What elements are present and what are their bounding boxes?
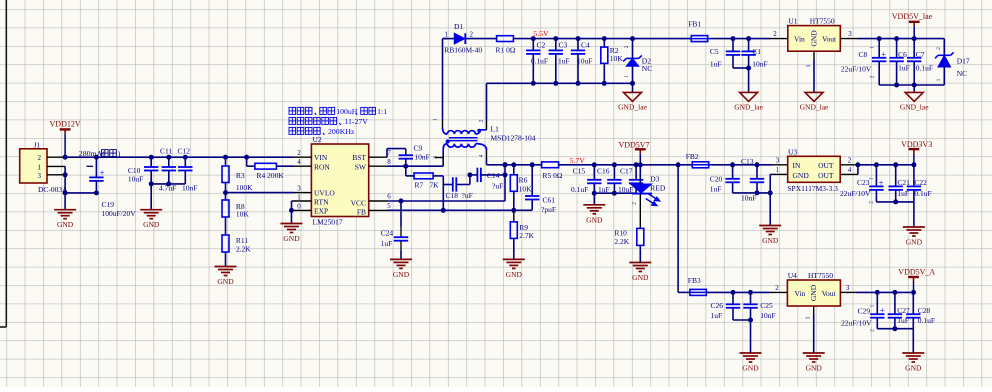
pin 1 of J1 bbox=[47, 165, 65, 167]
power port VDD5V_A bbox=[908, 276, 919, 278]
svg-text:C9: C9 bbox=[414, 144, 423, 153]
svg-text:1: 1 bbox=[624, 75, 630, 78]
power port VDD3V3 bbox=[909, 148, 920, 150]
svg-text:10K: 10K bbox=[236, 209, 250, 218]
pin 3 Vout of U4 bbox=[840, 291, 855, 293]
ground GND at U2 EXP bbox=[291, 210, 293, 223]
svg-text:Vout: Vout bbox=[822, 289, 837, 298]
svg-text:+: + bbox=[100, 168, 105, 178]
pin 1 GND of U3 bbox=[773, 173, 788, 175]
zener diode D17 NC bbox=[943, 39, 945, 56]
wire FB1 to U1 bbox=[711, 38, 771, 40]
svg-text:0.1uF: 0.1uF bbox=[531, 56, 548, 65]
wire FB net row bbox=[387, 209, 532, 211]
svg-text:C16: C16 bbox=[597, 167, 610, 176]
resistor R10 2.2K bbox=[639, 194, 641, 229]
svg-text:C24: C24 bbox=[381, 229, 394, 238]
node C14 to output bbox=[503, 172, 508, 177]
svg-text:2.2K: 2.2K bbox=[614, 237, 629, 246]
svg-text:+: + bbox=[881, 49, 886, 59]
svg-text:SW: SW bbox=[355, 162, 367, 171]
resistor R8 10K bbox=[222, 200, 229, 217]
svg-text:3: 3 bbox=[848, 30, 852, 38]
pin 3 of J1 bbox=[47, 174, 65, 176]
wire VDD3V3 rail bbox=[858, 164, 914, 166]
svg-text:1uF: 1uF bbox=[898, 64, 910, 73]
svg-text:2: 2 bbox=[870, 75, 876, 78]
svg-text:1uF: 1uF bbox=[710, 185, 722, 194]
capacitor C8 22uF/10V bbox=[877, 36, 882, 41]
svg-text:2: 2 bbox=[297, 149, 301, 157]
svg-text:3: 3 bbox=[38, 172, 42, 180]
svg-text:2: 2 bbox=[775, 284, 779, 292]
resistor R3 100K bbox=[223, 155, 228, 160]
capacitor C1 10nF bbox=[746, 36, 751, 41]
svg-text:FB3: FB3 bbox=[688, 276, 701, 285]
capacitor C13 10nF bbox=[755, 162, 760, 167]
svg-text:2: 2 bbox=[848, 157, 852, 165]
LED D3 RED bbox=[639, 165, 641, 184]
svg-text:C14: C14 bbox=[487, 171, 500, 180]
svg-text:?puF: ?puF bbox=[541, 205, 556, 214]
svg-text:3: 3 bbox=[846, 284, 850, 292]
pin 2 Vin of U1 bbox=[770, 38, 788, 40]
svg-text:1: 1 bbox=[776, 166, 780, 174]
svg-text:C61: C61 bbox=[543, 196, 556, 205]
svg-text:GND: GND bbox=[217, 277, 234, 286]
capacitor C17 10uF bbox=[634, 162, 639, 167]
resistor R6 10K feedback upper bbox=[513, 165, 515, 175]
ground GND at R10 bbox=[639, 245, 641, 262]
svg-text:1: 1 bbox=[806, 317, 812, 320]
wire VCC net row bbox=[387, 200, 505, 202]
wire FB3 to U4 bbox=[706, 291, 769, 293]
svg-text:C28: C28 bbox=[918, 306, 931, 315]
svg-text:GND: GND bbox=[283, 234, 300, 243]
svg-text:VDD5V7: VDD5V7 bbox=[618, 140, 649, 149]
pin 3 Vout of U1 bbox=[840, 38, 858, 40]
capacitor C27 1uF bbox=[892, 290, 897, 295]
svg-text:2: 2 bbox=[632, 202, 638, 205]
wire output node row bbox=[487, 164, 542, 166]
svg-text:1: 1 bbox=[38, 164, 42, 172]
svg-text:10nF: 10nF bbox=[752, 60, 767, 69]
svg-text:1uF: 1uF bbox=[558, 56, 570, 65]
svg-text:Vin: Vin bbox=[794, 35, 805, 44]
svg-text:2: 2 bbox=[624, 45, 630, 48]
svg-text:0.1uF: 0.1uF bbox=[916, 64, 933, 73]
wire GND_lae rail under cap bank bbox=[487, 82, 633, 84]
svg-text:GND: GND bbox=[906, 238, 923, 247]
svg-text:2: 2 bbox=[470, 31, 474, 39]
svg-text:GND_lae: GND_lae bbox=[800, 102, 829, 111]
wire C26-C25 bottom link bbox=[733, 319, 751, 321]
svg-text:D1: D1 bbox=[454, 22, 463, 31]
svg-text:10K: 10K bbox=[610, 54, 624, 63]
svg-text:RB160M-40: RB160M-40 bbox=[444, 45, 482, 54]
svg-text:C15: C15 bbox=[573, 167, 586, 176]
diode D1 RB160M-40 bbox=[443, 38, 449, 40]
svg-text:BST: BST bbox=[352, 153, 366, 162]
ground GND at C28 bank bbox=[912, 329, 914, 353]
wire 5.7V rail bbox=[559, 164, 679, 166]
regulator U4 HT7550 bbox=[787, 280, 840, 306]
svg-text:10uF: 10uF bbox=[577, 56, 592, 65]
wire C23-C22 bottom rail bbox=[876, 201, 914, 203]
svg-text:FB: FB bbox=[357, 208, 366, 217]
capacitor C25 10nF bbox=[748, 290, 753, 295]
svg-text:GND: GND bbox=[810, 30, 819, 47]
svg-text:C12: C12 bbox=[178, 147, 191, 156]
capacitor C5 1uF bbox=[731, 36, 736, 41]
svg-text:FB2: FB2 bbox=[686, 152, 699, 161]
pin 1 GND of U1 bbox=[813, 51, 815, 60]
svg-text:GND_lae: GND_lae bbox=[900, 102, 929, 111]
power port VDD5V7 bbox=[635, 148, 646, 150]
svg-text:1uF: 1uF bbox=[710, 60, 722, 69]
svg-text:U3: U3 bbox=[788, 147, 797, 156]
svg-text:5: 5 bbox=[387, 202, 391, 210]
svg-text:LM25017: LM25017 bbox=[313, 218, 343, 227]
svg-text:0.1uF: 0.1uF bbox=[571, 185, 588, 194]
svg-text:4: 4 bbox=[479, 154, 485, 157]
svg-text:VDD5V_lae: VDD5V_lae bbox=[892, 12, 933, 21]
capacitor C21 1uF bbox=[893, 162, 898, 167]
ground GND at U3 bbox=[759, 226, 781, 235]
regulator U1 HT7550 bbox=[788, 26, 841, 52]
svg-text:100K: 100K bbox=[236, 183, 253, 192]
svg-text:2: 2 bbox=[773, 30, 777, 38]
svg-text:4: 4 bbox=[297, 158, 301, 166]
svg-text:1: 1 bbox=[869, 304, 875, 307]
svg-text:1: 1 bbox=[806, 65, 812, 68]
wire 5.5V rail bbox=[513, 38, 690, 40]
svg-text:10uF: 10uF bbox=[128, 174, 143, 183]
svg-text:8: 8 bbox=[387, 158, 391, 166]
svg-text:Vout: Vout bbox=[822, 35, 837, 44]
svg-text:5.7V: 5.7V bbox=[570, 156, 586, 165]
svg-text:RED: RED bbox=[650, 184, 666, 193]
svg-text:C11: C11 bbox=[160, 147, 172, 156]
wire VDD12V rail bbox=[65, 156, 293, 158]
pin 2 OUT of U3 bbox=[840, 164, 858, 166]
capacitor C10 10uF bbox=[149, 155, 154, 160]
svg-text:3: 3 bbox=[297, 184, 301, 192]
pin 3 IN of U3 bbox=[773, 164, 788, 166]
svg-text:Vin: Vin bbox=[795, 289, 806, 298]
svg-text:IN: IN bbox=[793, 161, 801, 170]
svg-text:EXP: EXP bbox=[314, 207, 328, 216]
node VDD12V rail junction at J1 bbox=[63, 155, 68, 160]
svg-text:C25: C25 bbox=[760, 301, 773, 310]
svg-text:): ) bbox=[118, 149, 121, 158]
svg-text:10nF: 10nF bbox=[182, 184, 197, 193]
resistor R11 2.2K bbox=[222, 235, 229, 252]
pin 2 of J1 bbox=[47, 156, 65, 158]
svg-text:?uF: ?uF bbox=[462, 191, 473, 200]
svg-text:GND: GND bbox=[809, 284, 818, 301]
pin 4 RON of U2 bbox=[294, 165, 312, 167]
annotation chinese notes bbox=[289, 107, 296, 114]
wire J1 pins 1-3 to ground link bbox=[64, 166, 66, 193]
ground GND at C24 bbox=[400, 241, 402, 251]
capacitor C29 22uF/10V bbox=[875, 290, 880, 295]
svg-text:?uF: ?uF bbox=[492, 182, 503, 191]
svg-text:1: 1 bbox=[870, 46, 876, 49]
svg-text:NC: NC bbox=[642, 64, 652, 73]
wire C29-C28 bottom rail bbox=[877, 328, 913, 330]
wire branch to FB2/FB3 bbox=[676, 162, 681, 167]
wire R8 to R11 bbox=[225, 217, 227, 235]
svg-text:OUT: OUT bbox=[818, 171, 834, 180]
svg-text:R4 200K: R4 200K bbox=[257, 171, 285, 180]
pin 1 RTN of U2 bbox=[294, 200, 312, 202]
svg-text:C3: C3 bbox=[559, 40, 568, 49]
svg-text:1: 1 bbox=[936, 78, 942, 81]
regulator U3 SPX1117M3-3.3 bbox=[788, 156, 841, 182]
capacitor C28 0.1uF bbox=[912, 292, 914, 314]
wire C15-C17 bottom rail bbox=[594, 192, 636, 194]
svg-text:GND: GND bbox=[762, 236, 779, 245]
capacitor C23 22uF/10V bbox=[874, 162, 879, 167]
pin 0 EXP of U2 bbox=[294, 209, 312, 211]
pin 3 UVLO of U2 bbox=[294, 192, 312, 194]
svg-text:1: 1 bbox=[869, 177, 875, 180]
svg-text:C4: C4 bbox=[581, 40, 590, 49]
svg-text:0.1uF: 0.1uF bbox=[914, 189, 931, 198]
svg-text:+: + bbox=[879, 178, 884, 188]
resistor R7 7K bbox=[405, 166, 407, 176]
ground GND_lae at U1 bbox=[805, 92, 823, 101]
svg-text:3: 3 bbox=[433, 156, 439, 159]
svg-text:C17: C17 bbox=[620, 167, 633, 176]
svg-text:22uF/10V: 22uF/10V bbox=[840, 189, 871, 198]
wire U4 output rail bbox=[856, 291, 914, 293]
svg-text:GND: GND bbox=[393, 270, 410, 279]
node UVLO divider tap bbox=[225, 183, 227, 201]
pin 6 VCC of U2 bbox=[369, 200, 387, 202]
capacitor C24 1uF bbox=[400, 201, 402, 227]
ground GND at R9 bbox=[513, 238, 515, 259]
svg-text:R5 0Ω: R5 0Ω bbox=[543, 171, 563, 180]
svg-text:GND: GND bbox=[793, 171, 810, 180]
transformer primary winding bbox=[443, 144, 447, 150]
svg-text:+: + bbox=[880, 306, 885, 316]
wire SW node bbox=[387, 165, 443, 167]
svg-text:2.7K: 2.7K bbox=[519, 231, 534, 240]
svg-text:7: 7 bbox=[387, 149, 391, 157]
svg-text:C22: C22 bbox=[914, 178, 927, 187]
wire capacitor bank C10-C12 bottom rail bbox=[151, 183, 185, 185]
wire FB2 to U3 bbox=[712, 164, 773, 166]
svg-text:1uF: 1uF bbox=[381, 239, 393, 248]
svg-text:7K: 7K bbox=[430, 180, 440, 189]
resistor R4 200K bbox=[244, 155, 249, 160]
capacitor C11 4.7uF bbox=[166, 155, 171, 160]
svg-text:GND: GND bbox=[143, 220, 160, 229]
resistor R1 0ohm bbox=[497, 36, 514, 42]
svg-text:1:1: 1:1 bbox=[377, 107, 387, 116]
svg-text:100uH: 100uH bbox=[336, 107, 358, 116]
svg-text:HT7550: HT7550 bbox=[810, 17, 835, 26]
resistor R5 0ohm bbox=[542, 162, 559, 168]
svg-text:D17: D17 bbox=[957, 57, 970, 66]
power port VDD5V_lae bbox=[909, 21, 920, 23]
ground GND_lae at D2 bbox=[632, 83, 634, 92]
resistor R9 2.7K feedback lower bbox=[513, 210, 515, 222]
svg-text:C26: C26 bbox=[711, 301, 724, 310]
zener diode D2 NC bbox=[630, 36, 635, 41]
svg-text:0: 0 bbox=[297, 203, 301, 211]
svg-text:0.1uF: 0.1uF bbox=[918, 316, 935, 325]
svg-text:1: 1 bbox=[445, 31, 449, 39]
capacitor C22 0.1uF bbox=[913, 165, 915, 187]
capacitor C15 0.1uF bbox=[592, 162, 597, 167]
pin 7 BST of U2 bbox=[369, 156, 387, 158]
capacitor C19 100uF/20V bbox=[94, 155, 99, 160]
svg-text:2.2K: 2.2K bbox=[236, 245, 251, 254]
svg-text:11-27V: 11-27V bbox=[344, 117, 368, 126]
wire OUT pins tie bbox=[857, 165, 859, 175]
wire C20-C13 bottom rail bbox=[733, 192, 771, 194]
svg-text:MSD1278-104: MSD1278-104 bbox=[491, 133, 536, 142]
svg-text:RON: RON bbox=[314, 162, 330, 171]
svg-text:GND: GND bbox=[586, 215, 603, 224]
capacitor C16 1uF bbox=[612, 162, 617, 167]
svg-text:6: 6 bbox=[387, 193, 391, 201]
svg-text:C18: C18 bbox=[446, 191, 459, 200]
capacitor C61 ?puF bbox=[531, 165, 533, 196]
svg-text:GND: GND bbox=[506, 270, 523, 279]
svg-text:5.5V: 5.5V bbox=[533, 29, 549, 38]
svg-text:VDD5V_A: VDD5V_A bbox=[898, 268, 935, 277]
svg-text:1: 1 bbox=[297, 193, 301, 201]
connector J1 DC-003A bbox=[20, 149, 47, 183]
sheet border bbox=[5, 0, 7, 327]
ground GND_lae at C8 bank bbox=[913, 85, 915, 92]
ground GND at U4 bbox=[803, 353, 825, 362]
pin 8 SW of U2 bbox=[369, 165, 387, 167]
wire U1 output rail bbox=[858, 38, 944, 40]
svg-text:GND: GND bbox=[632, 273, 649, 282]
svg-text:4: 4 bbox=[848, 166, 852, 174]
svg-text:R10: R10 bbox=[614, 228, 627, 237]
svg-text:C2: C2 bbox=[537, 40, 546, 49]
svg-text:GND: GND bbox=[57, 220, 74, 229]
ground GND at R11 bbox=[225, 252, 227, 267]
capacitor C12 10nF bbox=[183, 155, 188, 160]
svg-text:GND: GND bbox=[905, 364, 922, 373]
svg-text:U4: U4 bbox=[788, 271, 797, 280]
svg-text:VIN: VIN bbox=[314, 153, 328, 162]
svg-text:10K: 10K bbox=[519, 185, 533, 194]
svg-text:200KHz: 200KHz bbox=[328, 127, 355, 136]
wire R7 to FB node vertical bbox=[433, 175, 443, 177]
wire J1 ground rail bbox=[65, 192, 96, 194]
svg-text:2: 2 bbox=[869, 329, 875, 332]
capacitor C20 1uF bbox=[730, 162, 735, 167]
svg-text:J1: J1 bbox=[34, 141, 41, 150]
svg-text:GND_lae: GND_lae bbox=[734, 102, 763, 111]
svg-text:SPX1117M3-3.3: SPX1117M3-3.3 bbox=[787, 184, 838, 193]
svg-text:L1: L1 bbox=[491, 125, 500, 134]
svg-text:R7: R7 bbox=[415, 180, 424, 189]
power port VDD12V bbox=[60, 128, 71, 130]
wire C8 bank bottom rail bbox=[879, 84, 944, 86]
svg-text:2: 2 bbox=[936, 47, 942, 50]
transformer L1 MSD1278-104 bbox=[442, 39, 444, 120]
svg-text:VDD3V3: VDD3V3 bbox=[901, 140, 932, 149]
pin 2 VIN of U2 bbox=[294, 156, 312, 158]
svg-text:VDD12V: VDD12V bbox=[50, 120, 81, 129]
svg-text:2: 2 bbox=[869, 201, 875, 204]
svg-text:3: 3 bbox=[776, 157, 780, 165]
svg-text:D3: D3 bbox=[650, 174, 659, 183]
capacitor C26 1uF bbox=[731, 290, 736, 295]
svg-text:NC: NC bbox=[957, 69, 967, 78]
ground GND at C10 bank bbox=[150, 184, 152, 210]
svg-text:2: 2 bbox=[38, 154, 42, 162]
pin 4 OUT of U3 bbox=[840, 173, 858, 175]
svg-text:GND: GND bbox=[742, 364, 759, 373]
transformer core bbox=[449, 137, 478, 139]
svg-text:10nF: 10nF bbox=[741, 193, 756, 202]
svg-text:VCC: VCC bbox=[351, 198, 366, 207]
capacitor C9 10nF bootstrap bbox=[386, 149, 388, 158]
ground GND at C25 bank bbox=[750, 320, 752, 353]
wire C5-C1 bottom link bbox=[733, 67, 749, 69]
svg-text:C19: C19 bbox=[102, 200, 115, 209]
svg-text:22uF/10V: 22uF/10V bbox=[841, 318, 872, 327]
svg-text:GND: GND bbox=[806, 364, 823, 373]
ground GND at C22 bank bbox=[913, 202, 915, 227]
svg-text:FB1: FB1 bbox=[688, 20, 701, 29]
ground GND_lae at C5/C1 bbox=[748, 68, 750, 92]
svg-text:U2: U2 bbox=[313, 135, 322, 144]
wire U3 GND pin down bbox=[770, 173, 772, 175]
svg-text:C8: C8 bbox=[859, 50, 868, 59]
regulator U2 LM25017 bbox=[311, 144, 368, 217]
capacitor C14 ?uF bbox=[469, 175, 471, 185]
svg-text:C6: C6 bbox=[898, 50, 907, 59]
svg-text:C20: C20 bbox=[710, 175, 723, 184]
wire RTN-EXP tie bbox=[291, 201, 293, 210]
svg-text:R1 0Ω: R1 0Ω bbox=[496, 45, 516, 54]
capacitor C6 1uF bbox=[894, 36, 899, 41]
capacitor C3 1uF bbox=[553, 36, 558, 41]
svg-text:R6: R6 bbox=[519, 176, 528, 185]
svg-text:2: 2 bbox=[479, 119, 485, 122]
svg-text:C1: C1 bbox=[752, 47, 761, 56]
svg-text:22uF/10V: 22uF/10V bbox=[841, 65, 872, 74]
svg-text:C7: C7 bbox=[916, 50, 925, 59]
capacitor C2 0.1uF bbox=[531, 36, 536, 41]
svg-text:C5: C5 bbox=[710, 47, 719, 56]
ground GND at C15 bank bbox=[593, 193, 595, 205]
svg-text:10nF: 10nF bbox=[760, 311, 775, 320]
svg-text:C13: C13 bbox=[741, 157, 754, 166]
svg-text:1: 1 bbox=[433, 118, 439, 121]
capacitor C18 ?uF bbox=[443, 184, 453, 186]
wire UVLO bbox=[226, 192, 294, 194]
pin 2 Vin of U4 bbox=[770, 291, 788, 293]
capacitor C7 0.1uF bbox=[913, 39, 915, 58]
capacitor C4 10uF bbox=[576, 36, 581, 41]
svg-text:HT7550: HT7550 bbox=[808, 271, 833, 280]
svg-text:U1: U1 bbox=[788, 17, 797, 26]
svg-text:R3: R3 bbox=[236, 171, 245, 180]
svg-text:UVLO: UVLO bbox=[314, 189, 335, 198]
